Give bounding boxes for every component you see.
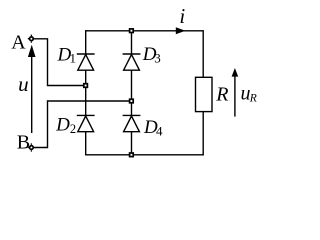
svg-text:1: 1 (70, 51, 77, 66)
voltage arrow uR (pointing up) (232, 68, 239, 117)
terminal B (28, 143, 33, 151)
svg-text:3: 3 (154, 50, 161, 65)
svg-text:R: R (249, 92, 257, 104)
wire terminal B to right arm junction (34, 101, 131, 148)
wire right arm D3 top lead (131, 30, 133, 54)
resistor R body (196, 77, 213, 111)
terminal A (28, 35, 33, 43)
diode D1 (77, 54, 95, 70)
wire resistor bottom lead (202, 112, 204, 155)
wire bottom rail (86, 154, 204, 156)
junction node left arm (input A) (84, 84, 88, 88)
junction node right arm (input B) (130, 99, 134, 103)
junction node on bottom rail (D4 anode) (130, 153, 134, 157)
diode D4 (123, 115, 141, 131)
wire top rail (86, 30, 204, 32)
wire left arm middle (D1 anode to D2 cathode) (85, 70, 87, 115)
junction node on top rail (D3 cathode) (130, 29, 134, 33)
svg-text:R: R (215, 83, 228, 105)
wire right arm middle (D3 anode to D4 cathode) (131, 70, 133, 115)
svg-text:A: A (11, 31, 26, 53)
wire terminal A to left arm junction (34, 39, 86, 86)
voltage arrow u (pointing up) (28, 45, 36, 133)
svg-text:4: 4 (156, 124, 163, 139)
wire right arm D4 bottom lead (131, 132, 133, 156)
diode D3 (123, 54, 141, 70)
wire right branch to resistor top (202, 30, 204, 77)
wire left arm D1 top lead (85, 30, 87, 54)
svg-text:B: B (17, 132, 30, 154)
svg-text:D: D (55, 115, 70, 136)
svg-text:2: 2 (70, 122, 76, 136)
diode D2 (77, 115, 95, 131)
current arrow i (pointing right on top rail) (176, 27, 186, 34)
svg-text:i: i (179, 4, 185, 28)
wire left arm D2 bottom lead (85, 132, 87, 156)
svg-text:u: u (18, 72, 29, 96)
